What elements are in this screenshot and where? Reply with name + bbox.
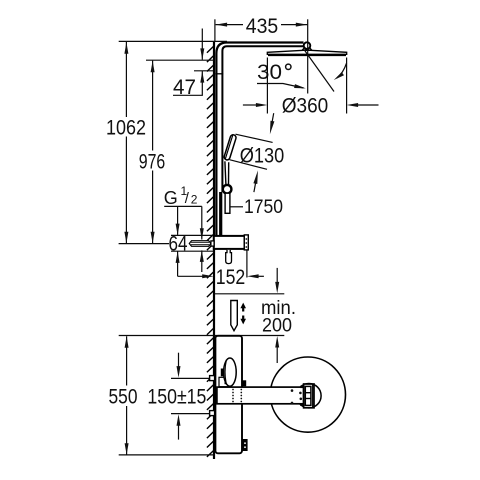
tick line arm underside	[146, 59, 214, 61]
valve stem black rect	[221, 369, 225, 377]
up/down bold arrows	[240, 303, 246, 312]
svg-text:152: 152	[216, 266, 246, 289]
dim O360 arrows	[243, 104, 257, 106]
valve body	[214, 236, 245, 249]
holder knob	[223, 185, 232, 194]
hidden edge dots on pipe	[232, 389, 234, 391]
tick valve bottom	[171, 250, 214, 252]
hand shower grip	[225, 161, 226, 184]
dim O130 arrows	[271, 113, 274, 127]
nipple wall flange	[211, 241, 214, 246]
control knob ellipse	[224, 358, 237, 386]
adjustable pipe symbol	[231, 301, 238, 331]
1750 leader	[230, 206, 243, 208]
dim 47 arrows	[201, 29, 203, 60]
tick line top of product	[119, 40, 227, 42]
clip bottom right of box	[242, 439, 247, 451]
valve end cap	[244, 235, 248, 250]
dim 1062 line	[125, 42, 127, 117]
tick line rail top	[194, 70, 214, 72]
dim 152 extension	[246, 251, 248, 278]
svg-text:550: 550	[109, 386, 138, 409]
pipe seam	[215, 73, 223, 75]
30 deg swivel line	[304, 50, 334, 92]
dim 550 line	[126, 336, 128, 385]
svg-text:64: 64	[169, 232, 188, 255]
min200 up arrow	[276, 342, 278, 363]
dim 435 extension left	[214, 19, 216, 41]
dim 976 line	[152, 61, 154, 151]
diverter knob below valve	[226, 250, 232, 264]
svg-text:2: 2	[191, 193, 198, 207]
wall hatching	[207, 46, 214, 457]
outlet pipe	[217, 387, 304, 404]
svg-text:Ø360: Ø360	[282, 95, 329, 118]
G 1/2 leg left / dim 64 upper	[177, 206, 179, 235]
svg-text:30: 30	[257, 61, 282, 84]
hot/cold supply square upper	[210, 376, 215, 381]
svg-text:435: 435	[246, 15, 279, 38]
round escutcheon	[270, 357, 345, 432]
dim 150pm15 lower arrow	[178, 421, 180, 440]
svg-text:200: 200	[262, 316, 292, 337]
wall face line	[213, 42, 215, 460]
valve small housing	[219, 377, 229, 386]
G 1/2 supply nipple	[189, 241, 211, 247]
min200 lower tick / box top tick	[119, 335, 285, 337]
dim O130 extension lines	[236, 134, 273, 142]
svg-text:150±15: 150±15	[147, 386, 206, 409]
dim 152 arrows	[178, 275, 204, 277]
pipe end nubs	[300, 386, 303, 388]
ball hub	[302, 48, 311, 50]
G 1/2 leader underline	[164, 205, 202, 207]
head shower disc (edge view)	[267, 50, 346, 54]
pipe end dots	[291, 389, 294, 392]
tick valve top	[171, 234, 214, 236]
min200 down arrow	[276, 268, 278, 287]
ticks 150pm15	[171, 377, 210, 379]
min200 upper tick	[215, 293, 285, 295]
30 deg swivel arc arrow	[337, 63, 347, 78]
connector clamp plate	[304, 384, 314, 408]
svg-text:Ø130: Ø130	[240, 144, 285, 167]
svg-text:976: 976	[139, 150, 166, 173]
clip above pipe	[242, 380, 246, 386]
head centerline	[307, 19, 309, 93]
svg-text:G: G	[164, 188, 178, 208]
hand shower lower stem	[225, 193, 230, 213]
tick line valve supply centre	[119, 243, 169, 245]
ball joint sphere	[304, 42, 311, 49]
dim O360 extension lines	[266, 58, 268, 114]
concealed rough-in box	[215, 336, 242, 454]
30 deg label leader	[257, 84, 304, 89]
hand shower head	[223, 134, 236, 161]
bottom tick	[119, 454, 214, 456]
dim 64 lower arrows	[177, 251, 179, 276]
connector boss circle	[297, 384, 321, 408]
riser pipe with elbow to arm	[216, 43, 303, 237]
svg-text:47: 47	[173, 76, 196, 99]
dim 150pm15 upper arrow	[178, 353, 180, 371]
svg-text:1062: 1062	[106, 117, 146, 140]
dim 435 line	[216, 24, 243, 26]
hot/cold supply square lower	[210, 411, 215, 416]
G 1/2 leg right	[201, 206, 203, 239]
shower hose hanging to valve	[219, 192, 222, 236]
svg-text:1750: 1750	[244, 197, 283, 218]
